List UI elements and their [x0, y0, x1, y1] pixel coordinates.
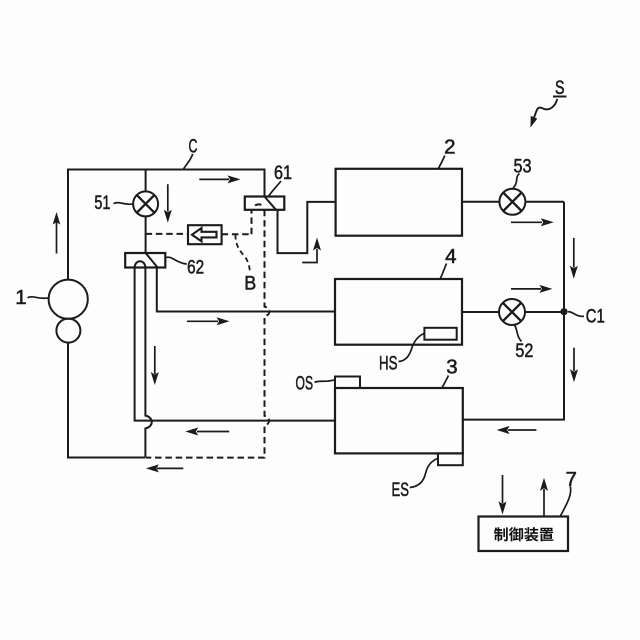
svg-text:61: 61 [274, 163, 292, 184]
svg-text:C: C [189, 136, 198, 157]
svg-text:7: 7 [565, 468, 576, 491]
svg-text:S: S [555, 78, 565, 99]
svg-text:3: 3 [446, 355, 457, 378]
svg-text:1: 1 [15, 286, 26, 309]
svg-text:51: 51 [94, 193, 110, 214]
svg-text:C1: C1 [586, 306, 605, 327]
svg-text:OS: OS [296, 373, 314, 394]
svg-text:4: 4 [445, 245, 456, 268]
svg-text:B: B [244, 272, 256, 294]
svg-text:2: 2 [444, 136, 455, 159]
svg-text:53: 53 [514, 157, 532, 178]
svg-text:62: 62 [187, 258, 204, 279]
svg-text:52: 52 [515, 341, 533, 362]
svg-text:HS: HS [379, 353, 398, 374]
svg-text:ES: ES [392, 480, 410, 501]
